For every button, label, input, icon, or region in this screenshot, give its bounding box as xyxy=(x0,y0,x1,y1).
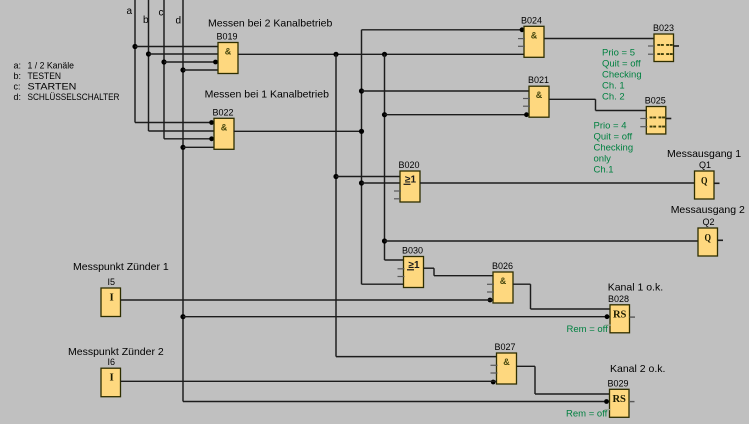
junction net2-B021 xyxy=(359,88,364,93)
svg-text:B020: B020 xyxy=(399,160,420,170)
B023 dash row 2 xyxy=(657,53,660,55)
OR gate B020 xyxy=(400,171,420,202)
svg-text:only: only xyxy=(594,154,612,165)
B025 output stub xyxy=(666,118,672,120)
junction at B019 in3 xyxy=(213,60,218,65)
svg-text:&: & xyxy=(225,47,232,57)
svg-text:Checking: Checking xyxy=(602,70,642,81)
B029 output stub xyxy=(629,401,635,403)
junction B019out-line1 xyxy=(333,52,338,57)
wire b to B019 in2 xyxy=(149,53,219,55)
svg-text:Quit = off: Quit = off xyxy=(602,59,641,70)
AND gate B027 xyxy=(497,353,517,384)
svg-text:1 / 2 Kanäle: 1 / 2 Kanäle xyxy=(28,61,75,71)
svg-text:B019: B019 xyxy=(217,32,238,42)
B027 input 2 stub xyxy=(491,364,498,366)
svg-text:Ch.1: Ch.1 xyxy=(594,165,614,176)
wire net1 to B027 in1 xyxy=(336,356,497,358)
wire B021 out to B025 in1 xyxy=(596,110,647,112)
wire d vertical xyxy=(182,0,184,402)
input block I6 xyxy=(101,368,121,397)
wire a to B019 in1 xyxy=(135,46,218,48)
junction at B021 in4 xyxy=(524,112,529,117)
wire c to B019 in3 xyxy=(164,61,218,63)
svg-text:c:: c: xyxy=(14,82,21,92)
svg-text:a:: a: xyxy=(14,61,22,71)
svg-text:Messpunkt Zünder 2: Messpunkt Zünder 2 xyxy=(68,346,164,358)
svg-text:B029: B029 xyxy=(608,378,629,388)
svg-text:TESTEN: TESTEN xyxy=(28,71,62,81)
message text block B025 xyxy=(646,107,666,135)
svg-text:B027: B027 xyxy=(495,342,516,352)
svg-text:&: & xyxy=(221,122,228,132)
junction c-B019 xyxy=(161,59,166,64)
junction at B022 in1 xyxy=(209,120,214,125)
svg-text:d:: d: xyxy=(14,92,22,102)
svg-text:b:: b: xyxy=(14,71,22,81)
svg-text:&: & xyxy=(536,90,543,100)
junction B019out-line3 xyxy=(382,52,387,57)
wire net1 vertical xyxy=(335,54,337,356)
junction net2-B022out xyxy=(359,129,364,134)
wire d to B029 in2 xyxy=(183,401,610,403)
svg-text:&: & xyxy=(500,276,507,286)
wire B021 out h1 xyxy=(549,98,596,100)
output block Q2 xyxy=(698,228,718,256)
wire B021 out v xyxy=(595,99,597,110)
B021 input 2 stub xyxy=(523,98,530,100)
svg-text:Ch. 1: Ch. 1 xyxy=(602,81,625,92)
svg-text:Messpunkt Zünder 1: Messpunkt Zünder 1 xyxy=(73,261,169,273)
svg-text:Quit = off: Quit = off xyxy=(594,132,633,143)
wire B027 out v xyxy=(534,366,536,394)
svg-text:&: & xyxy=(503,357,510,367)
B027 input 3 stub xyxy=(491,372,498,374)
junction net1-B020 xyxy=(333,174,338,179)
svg-text:SCHLÜSSELSCHALTER: SCHLÜSSELSCHALTER xyxy=(28,92,120,102)
wire net2 to B030 in4 xyxy=(362,283,404,285)
AND gate B022 xyxy=(214,118,234,149)
AND gate B024 xyxy=(524,26,544,57)
B023 dash row 1 xyxy=(657,44,660,46)
junction at B024 in1 xyxy=(520,27,525,32)
svg-text:a: a xyxy=(127,6,133,17)
svg-text:Prio = 5: Prio = 5 xyxy=(602,48,635,59)
B025 input 2 stub xyxy=(640,118,647,120)
svg-text:B030: B030 xyxy=(402,246,423,256)
svg-text:B028: B028 xyxy=(608,294,629,304)
junction net2-B020 xyxy=(359,180,364,185)
junction a-B019 xyxy=(132,44,137,49)
svg-text:Q: Q xyxy=(701,175,708,187)
wire B030 out v xyxy=(433,268,435,276)
svg-text:STARTEN: STARTEN xyxy=(28,82,77,92)
Q1 output stub xyxy=(714,182,720,184)
OR gate B030 xyxy=(404,257,424,288)
wire B020 out to Q1 xyxy=(420,182,695,184)
wire net2 to B021 in1 xyxy=(362,90,530,92)
B023 output stub xyxy=(674,45,680,47)
svg-text:B026: B026 xyxy=(492,261,513,271)
B026 input 2 stub xyxy=(487,283,494,285)
wire B026 out h1 xyxy=(513,283,531,285)
svg-text:I: I xyxy=(110,372,114,384)
wire net2 to B024 in1 xyxy=(362,29,525,31)
wire net3 to Q2 xyxy=(385,240,699,242)
B030 input 3 stub xyxy=(398,276,405,278)
wire b vertical xyxy=(148,0,150,131)
junction at B027 in4 xyxy=(491,380,496,385)
B025 input 3 stub xyxy=(640,126,647,128)
wire net1 to B020 in1 xyxy=(336,176,400,178)
wire net3 vertical xyxy=(384,54,386,260)
junction at B026 in4 xyxy=(488,298,493,303)
svg-text:Ch. 2: Ch. 2 xyxy=(602,92,625,103)
B025 dash row 2 xyxy=(650,126,653,128)
wire I6 out to B027 in4 xyxy=(121,380,497,382)
svg-text:Checking: Checking xyxy=(594,143,634,154)
B020 input 4 stub xyxy=(394,198,401,200)
wire B024 out to B023 in1 xyxy=(545,38,655,40)
junction at B022 in3 xyxy=(209,136,214,141)
junction net3-Q2 xyxy=(382,238,387,243)
wire d to B019 in4 xyxy=(183,69,218,71)
B021 input 3 stub xyxy=(523,105,530,107)
B028 output stub xyxy=(630,316,636,318)
svg-text:Messen bei 1 Kanalbetrieb: Messen bei 1 Kanalbetrieb xyxy=(205,89,329,101)
junction at B028 in2 xyxy=(605,314,610,319)
wire a to B022 in1 xyxy=(135,122,214,124)
B023 input 3 stub xyxy=(648,53,655,55)
B029 par stub xyxy=(605,409,611,411)
wire c vertical xyxy=(163,0,165,139)
svg-text:B025: B025 xyxy=(645,96,666,106)
wire net2 to B020 in2 xyxy=(362,182,401,184)
svg-text:Messausgang 1: Messausgang 1 xyxy=(667,148,741,160)
output block Q1 xyxy=(695,171,715,199)
wire b to B022 in2 xyxy=(149,130,215,132)
svg-text:RS: RS xyxy=(612,394,626,405)
wire B022 out to net line2 xyxy=(234,130,362,132)
AND gate B021 xyxy=(529,86,549,117)
svg-text:I6: I6 xyxy=(108,357,116,367)
B028 par stub xyxy=(605,324,611,326)
svg-text:d: d xyxy=(176,16,182,27)
input block I5 xyxy=(101,288,121,317)
svg-text:RS: RS xyxy=(613,310,627,321)
wire B019 out to B024 in4 xyxy=(238,53,524,55)
svg-text:B022: B022 xyxy=(213,107,234,117)
B025 dash row 1 xyxy=(650,117,653,119)
junction b-B019 xyxy=(146,51,151,56)
wire B030 out to B026 in1 xyxy=(434,275,493,277)
message text block B023 xyxy=(654,34,674,62)
svg-text:&: & xyxy=(531,30,538,40)
B024 input 2 stub xyxy=(518,38,525,40)
wire d to B028 in2 xyxy=(183,316,610,318)
B023 input 2 stub xyxy=(648,45,655,47)
Q2 output stub xyxy=(718,239,724,241)
wire net2 vertical xyxy=(361,30,363,284)
svg-text:B021: B021 xyxy=(528,75,549,85)
RS latch B029 xyxy=(610,389,630,417)
svg-text:Q1: Q1 xyxy=(699,160,711,170)
junction d-B028 xyxy=(180,314,185,319)
junction at B029 in2 xyxy=(604,399,609,404)
B030 input 2 stub xyxy=(398,268,405,270)
svg-text:Kanal 1 o.k.: Kanal 1 o.k. xyxy=(608,282,663,294)
wire d to B022 in4 xyxy=(183,146,214,148)
svg-text:I5: I5 xyxy=(108,277,116,287)
wire B027 out h1 xyxy=(517,365,536,367)
junction net3-B021 xyxy=(382,112,387,117)
svg-text:Rem = off: Rem = off xyxy=(567,324,609,335)
junction d-B019 xyxy=(180,67,185,72)
svg-text:Rem = off: Rem = off xyxy=(566,409,608,420)
svg-text:Messen bei 2 Kanalbetrieb: Messen bei 2 Kanalbetrieb xyxy=(208,18,332,30)
junction d-B022 xyxy=(180,145,185,150)
svg-text:I: I xyxy=(110,292,114,304)
svg-text:c: c xyxy=(159,8,164,19)
B024 input 3 stub xyxy=(518,45,525,47)
svg-text:Q2: Q2 xyxy=(703,217,715,227)
wire c to B022 in3 xyxy=(164,138,214,140)
wire net3 to B030 in1 xyxy=(385,259,404,261)
svg-text:Prio = 4: Prio = 4 xyxy=(594,121,627,132)
svg-text:B023: B023 xyxy=(653,23,674,33)
svg-text:Kanal 2 o.k.: Kanal 2 o.k. xyxy=(610,363,665,375)
wire net3 to B021 in4 xyxy=(385,114,530,116)
wire a vertical xyxy=(134,0,136,123)
AND gate B026 xyxy=(493,272,513,303)
svg-text:B024: B024 xyxy=(521,15,542,25)
wire I5 out to B026 in4 xyxy=(121,299,494,301)
wire B026 out v xyxy=(530,284,532,309)
RS latch B028 xyxy=(610,305,630,333)
wire B030 out h1 xyxy=(424,267,435,269)
B026 input 3 stub xyxy=(487,291,494,293)
wire B026 out to B028 in1 xyxy=(531,308,611,310)
wire B027 out to B029 in1 xyxy=(535,393,610,395)
B020 input 3 stub xyxy=(394,190,401,192)
AND gate B019 xyxy=(218,43,238,74)
svg-text:Messausgang 2: Messausgang 2 xyxy=(671,204,745,216)
svg-text:Q: Q xyxy=(704,232,711,244)
